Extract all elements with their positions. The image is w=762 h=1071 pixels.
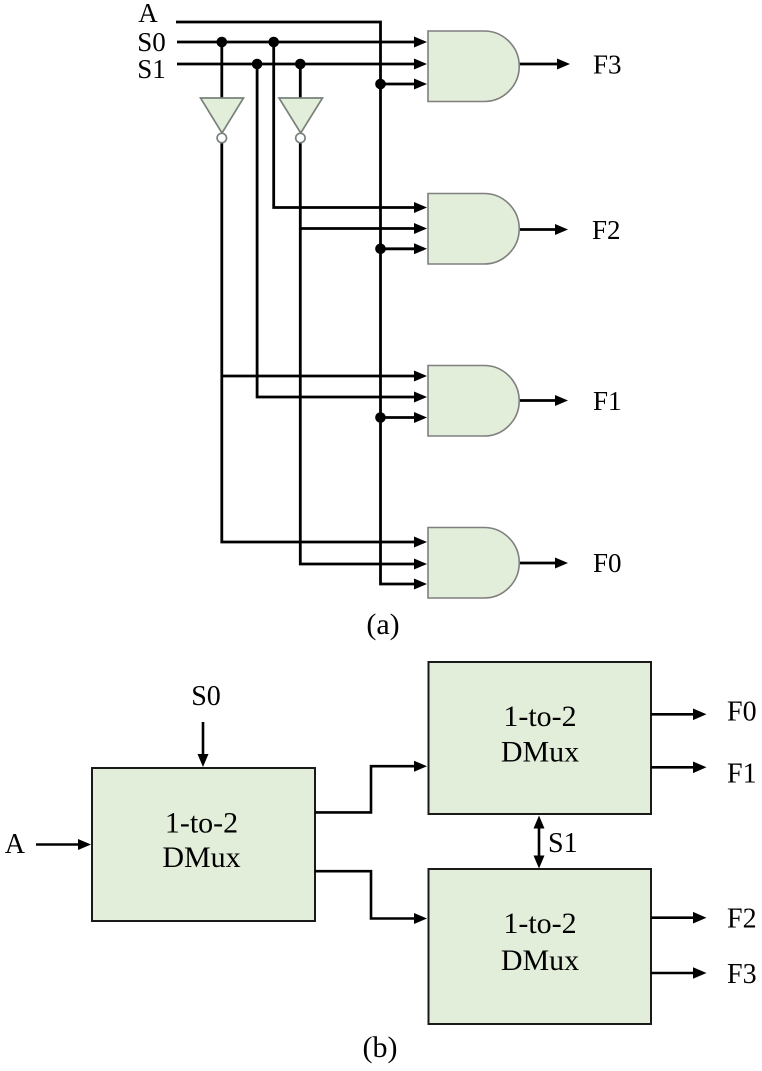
svg-text:F3: F3	[593, 50, 622, 80]
svg-text:A: A	[5, 829, 26, 860]
svg-text:S1: S1	[137, 54, 166, 84]
svg-text:F2: F2	[727, 904, 757, 935]
svg-text:S0: S0	[191, 681, 221, 712]
svg-text:F1: F1	[727, 759, 757, 790]
svg-text:F1: F1	[593, 386, 622, 416]
svg-text:F0: F0	[727, 697, 757, 728]
svg-text:F2: F2	[592, 215, 621, 245]
svg-text:1-to-2: 1-to-2	[503, 700, 576, 733]
svg-text:S1: S1	[548, 828, 578, 859]
svg-text:DMux: DMux	[501, 736, 579, 769]
svg-text:(a): (a)	[366, 608, 399, 641]
svg-text:F0: F0	[593, 548, 622, 578]
svg-text:F3: F3	[727, 959, 757, 990]
svg-text:(b): (b)	[363, 1031, 398, 1064]
svg-text:DMux: DMux	[162, 841, 240, 874]
svg-text:1-to-2: 1-to-2	[503, 907, 576, 940]
svg-text:A: A	[138, 0, 158, 28]
svg-text:1-to-2: 1-to-2	[165, 807, 238, 840]
svg-text:S0: S0	[137, 27, 166, 57]
svg-text:DMux: DMux	[501, 944, 579, 977]
